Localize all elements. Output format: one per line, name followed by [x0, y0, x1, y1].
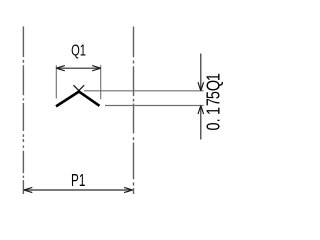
svg-text:0.175Q1: 0.175Q1 — [203, 73, 224, 131]
svg-text:Q1: Q1 — [71, 42, 86, 59]
dimension P1 line — [24, 189, 133, 191]
left centerline — [22, 26, 24, 194]
arrowhead up at lower line — [198, 106, 204, 115]
arrowhead Q1 right — [92, 66, 101, 71]
upper extension line to right dim — [84, 90, 204, 92]
right centerline — [133, 27, 135, 195]
thick caret (vee) — [56, 92, 100, 107]
thin X position marker — [74, 85, 85, 96]
vertical dimension line upper segment — [200, 54, 202, 91]
svg-text:P1: P1 — [71, 170, 85, 190]
dimension Q1 line — [56, 67, 100, 69]
arrowhead down at upper line — [198, 82, 204, 91]
lower extension line to right dim — [105, 105, 204, 107]
arrowhead Q1 left — [56, 66, 65, 71]
vertical dimension line lower segment — [200, 106, 202, 140]
arrowhead P1 left — [24, 187, 33, 192]
extension line Q1 right — [100, 65, 102, 99]
arrowhead P1 right — [124, 187, 133, 192]
extension line Q1 left — [55, 65, 57, 98]
